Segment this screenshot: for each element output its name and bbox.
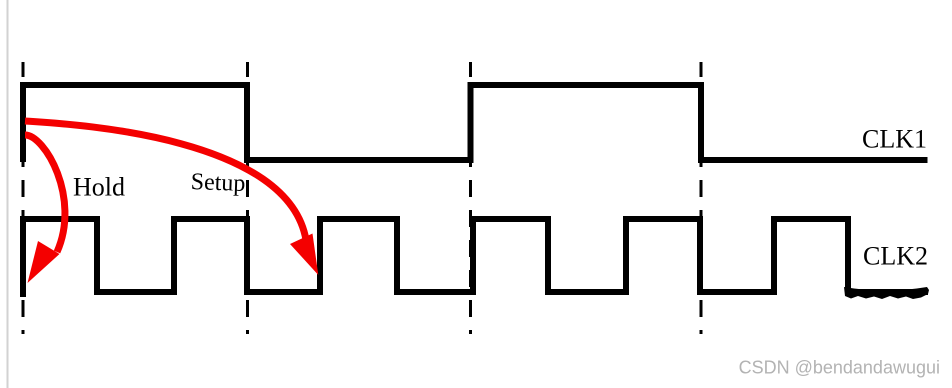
CLK1 waveform	[23, 85, 928, 162]
svg-text:CLK2: CLK2	[863, 242, 928, 271]
faint left margin line	[7, 0, 9, 388]
svg-text:Setup: Setup	[190, 169, 246, 197]
red Hold arrow (head)	[28, 241, 60, 283]
dashed timing reference line t2	[469, 62, 472, 334]
dashed timing reference line t3	[700, 62, 703, 334]
dashed timing reference line t0	[22, 62, 25, 334]
svg-text:CLK1: CLK1	[862, 125, 927, 154]
red Setup arrow (curve)	[25, 121, 306, 240]
scribble over last CLK2 low segment	[844, 287, 929, 299]
svg-text:Hold: Hold	[73, 173, 125, 202]
red Hold arrow (curve)	[25, 135, 65, 252]
CLK2 waveform	[23, 219, 928, 297]
red Setup arrow (head)	[290, 234, 318, 276]
svg-text:CSDN @bendandawugui: CSDN @bendandawugui	[739, 358, 940, 378]
dashed timing reference line t1	[246, 62, 249, 334]
